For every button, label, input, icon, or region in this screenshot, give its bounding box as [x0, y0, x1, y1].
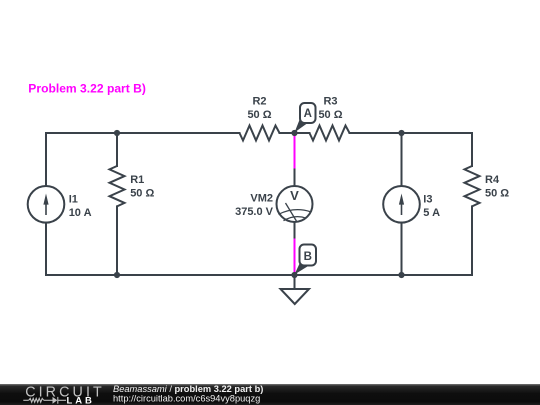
wire R1 branch lower — [116, 206, 118, 275]
resistor R4 — [465, 166, 480, 206]
logo diode triangle — [53, 397, 58, 404]
svg-text:A: A — [304, 108, 312, 120]
svg-text:VM2: VM2 — [250, 193, 273, 205]
wire bottom rail — [46, 274, 472, 276]
wire left rail upper — [45, 133, 47, 186]
junction dot node B — [291, 272, 297, 278]
wire top rail right segment — [350, 132, 473, 134]
ground — [281, 275, 310, 304]
svg-text:Beamassami / problem 3.22 part: Beamassami / problem 3.22 part b) — [113, 384, 263, 394]
svg-text:B: B — [304, 251, 312, 263]
wire I3 branch upper — [401, 133, 403, 186]
svg-text:50 Ω: 50 Ω — [130, 188, 154, 200]
svg-text:50 Ω: 50 Ω — [485, 188, 509, 200]
junction dot I3 bottom — [398, 272, 404, 278]
junction dot I3 top — [398, 130, 404, 136]
wire highlighted net B (magenta) — [294, 239, 296, 276]
svg-text:10 A: 10 A — [69, 207, 92, 219]
resistor R3 — [310, 126, 350, 141]
wire highlighted net A (magenta) — [294, 133, 296, 169]
wire left rail lower — [45, 223, 47, 276]
junction dot R1 top — [114, 130, 120, 136]
wire top rail left segment — [46, 132, 240, 134]
node B box — [300, 245, 317, 266]
svg-text:Problem 3.22 part B): Problem 3.22 part B) — [28, 81, 146, 95]
svg-text:I3: I3 — [423, 193, 432, 205]
junction dot node A — [291, 130, 297, 136]
svg-text:R3: R3 — [323, 96, 337, 108]
wire R1 branch upper — [116, 133, 118, 166]
wire I3 branch lower — [401, 223, 403, 276]
voltmeter VM2 — [277, 186, 313, 222]
logo glyph wire-resistor-diode — [23, 397, 66, 404]
current source I1 — [28, 186, 65, 223]
resistor R1 — [110, 166, 125, 206]
wire right rail lower — [471, 206, 473, 275]
node A flag tail — [295, 117, 308, 133]
current source I3 — [383, 186, 420, 223]
svg-text:50 Ω: 50 Ω — [247, 109, 271, 121]
wire VM2 bottom lead — [294, 222, 296, 239]
wire right rail upper — [471, 133, 473, 166]
svg-text:R2: R2 — [252, 96, 266, 108]
svg-text:LAB: LAB — [67, 396, 95, 405]
svg-text:I1: I1 — [69, 193, 78, 205]
wire VM2 top lead — [294, 169, 296, 187]
node B flag tail — [295, 259, 309, 274]
svg-text:R1: R1 — [130, 174, 144, 186]
svg-text:50 Ω: 50 Ω — [318, 109, 342, 121]
node A box — [300, 103, 316, 123]
svg-text:5 A: 5 A — [423, 207, 440, 219]
svg-text:V: V — [290, 188, 299, 203]
resistor R2 — [240, 126, 280, 141]
svg-text:http://circuitlab.com/c6s94vy8: http://circuitlab.com/c6s94vy8puqzg — [113, 394, 260, 404]
junction dot R1 bottom — [114, 272, 120, 278]
svg-text:R4: R4 — [485, 174, 500, 186]
wire top rail mid segment — [280, 132, 310, 134]
svg-text:375.0 V: 375.0 V — [235, 206, 274, 218]
